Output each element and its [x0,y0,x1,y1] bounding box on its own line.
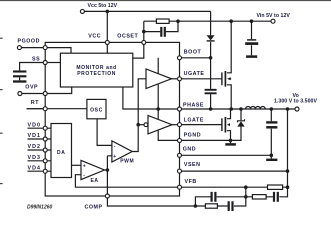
svg-text:COMP: COMP [85,204,103,210]
svg-text:-: - [114,144,116,150]
wire lower driver output [172,124,180,126]
wire OVP internal [45,87,71,94]
wire GND [180,154,272,156]
transistor Q1 high-side MOSFET [221,72,223,85]
svg-text:VSEN: VSEN [184,162,201,168]
wire PHASE rail [180,108,295,110]
wire PGOOD terminal [22,47,46,49]
pin VD1 [43,137,47,141]
wire VD0 [28,127,52,129]
wire upper driver boot stub [157,58,159,74]
capacitor C-out plates [266,121,277,123]
wire Q1 drain drop [227,21,231,73]
pin OVP [43,92,47,96]
pin VSEN [178,169,182,173]
svg-text:PGND: PGND [184,132,202,138]
block MONITOR and PROTECTION [60,53,132,87]
IC body U1 [45,42,179,196]
svg-text:RT: RT [31,100,39,106]
svg-text:UGATE: UGATE [184,71,205,77]
capacitor C-in plates [247,39,256,41]
wire row B right with resistor R5 capacitor C5 [246,187,288,197]
capacitor C-ocset wires [144,21,178,31]
diode D1 boot diode branch wire [210,11,212,57]
wire EA output COMP vertical to PWM plus [105,156,112,196]
capacitor C5 plates [274,192,278,202]
wire VSEN [180,170,288,172]
capacitor C-boot branch wires [210,58,212,109]
pin SS [43,61,47,65]
capacitor C2 plates [212,192,216,202]
pin UGATE [178,77,182,81]
wire VD4 [28,170,52,172]
pin BOOT [178,56,182,60]
resistor R-ocset body [156,19,169,23]
op-amp upper driver [146,69,172,89]
svg-text:GND: GND [183,146,196,152]
node PGOOD terminal [17,46,21,50]
svg-text:BOOT: BOOT [184,50,202,56]
pin PGND [178,138,182,142]
svg-text:PROTECTION: PROTECTION [77,71,116,77]
node OVP terminal [18,92,22,96]
wire OSC to PWM inverting input [97,119,112,146]
svg-text:VCC: VCC [88,33,101,39]
op-amp lower driver [148,116,172,134]
pin GND [178,153,182,157]
wire LGATE [180,124,222,126]
svg-text:VD1: VD1 [28,133,41,139]
svg-text:LGATE: LGATE [184,118,204,124]
wire VD2 [28,149,52,151]
wire PWM output to drivers [132,79,146,152]
wire UGATE [180,78,222,80]
inductor L1 coil [246,106,266,109]
svg-text:OSC: OSC [90,107,103,113]
resistor R5 body [252,195,266,199]
capacitor C-ss plates [13,70,26,72]
capacitor C-boot plates [205,89,217,91]
wire RT internal [27,108,87,110]
wire comp row B with capacitor C2 [195,197,245,206]
svg-text:Vin 5V to 12V: Vin 5V to 12V [257,13,291,19]
resistor R3 body [205,204,217,208]
pin VFB [178,185,182,189]
wire OVP terminal [22,93,45,95]
svg-text:OCSET: OCSET [117,33,138,39]
svg-text:+: + [113,154,117,160]
svg-text:SS: SS [32,56,40,62]
pin OCSET [142,40,146,44]
svg-text:PWM: PWM [120,159,134,165]
svg-text:PHASE: PHASE [183,102,204,108]
svg-text:VD0: VD0 [28,122,41,128]
resistor R-fb body [268,185,283,189]
svg-text:EA: EA [91,178,99,184]
svg-text:Vcc 5to 12V: Vcc 5to 12V [88,3,118,9]
wire OCSET vertical [143,21,145,42]
pin PGOOD [43,46,47,50]
wire OCSET internal [133,42,144,58]
ground bar under C-in [246,55,257,58]
capacitor C-ocset plates [161,27,165,37]
vertical joining VFB row to comp rows [245,187,247,197]
diode D2 schottky branch wire [240,109,242,120]
wire EA minus to VFB internal [75,175,179,188]
pin VD3 [43,159,47,163]
svg-text:DA: DA [57,150,65,156]
wire Vo feedback vertical [287,109,289,187]
wire SS with corner [20,63,46,71]
pin PHASE [178,107,182,111]
wire Vin rail [178,20,271,22]
wire PGOOD internal [45,48,71,54]
wire DA output to EA plus [72,164,82,166]
page top border line [0,0,331,2]
svg-text:OVP: OVP [25,85,38,91]
svg-text:PGOOD: PGOOD [18,38,40,44]
pin VD4 [43,169,47,173]
block DA [51,124,72,178]
pin COMP [105,194,109,198]
node Vo terminal [295,107,299,111]
svg-text:VD3: VD3 [28,155,41,161]
wire to lower driver bubble [138,124,144,126]
pin VD0 [43,126,47,130]
wire RT stub [27,108,46,110]
wire BOOT [180,57,211,59]
wire lower driver phase stub [157,109,159,120]
svg-text:D99IN1260: D99IN1260 [27,205,53,211]
wire PGND [180,126,242,140]
pin LGATE [178,123,182,127]
wire VD1 [28,138,52,140]
wire upper driver phase stub [157,84,159,109]
wire VCC pin drop [106,11,108,53]
pin RT [43,107,47,111]
wire upper driver output [172,78,180,80]
ground bar under C-out [266,159,277,161]
pin VCC [105,40,109,44]
left edge tick marks [0,38,3,185]
node Vin terminal [271,19,275,23]
wire VFB row [180,186,288,188]
transistor Q2 low-side MOSFET [221,118,223,131]
capacitor C-in branch [251,21,253,55]
wire lower driver pgnd stub and PGND internal [158,130,179,140]
wire VCC rail from Vcc terminal [85,10,211,12]
svg-text:1.300 V to 3.500V: 1.300 V to 3.500V [274,99,317,105]
pin VD2 [43,148,47,152]
lower driver inverter bubble [144,123,148,127]
svg-text:VD2: VD2 [28,144,41,150]
svg-text:VD4: VD4 [28,165,41,171]
op-amp EA error amplifier [81,160,105,179]
svg-text:+: + [83,163,87,169]
wire COMP stub and row C [107,196,245,206]
svg-text:-: - [83,173,85,179]
capacitor C3 plates [229,201,233,211]
wire monitor block to phase node and internal phase line [123,87,180,109]
diode D2 schottky body [237,121,244,126]
capacitor C-ss stub and ground bar [19,77,21,80]
resistor R-ocset leads [144,20,178,22]
wire VD3 [28,160,52,162]
wire SS internal [45,62,60,64]
capacitor C-out branch [270,109,272,159]
op-amp PWM comparator [112,141,132,162]
diode D1 body [207,35,215,40]
block OSC [87,99,106,118]
terminal and pin circles [17,9,299,198]
ground under Q2 source [230,140,232,143]
node Vcc terminal [80,9,84,13]
svg-text:VFB: VFB [185,179,197,185]
